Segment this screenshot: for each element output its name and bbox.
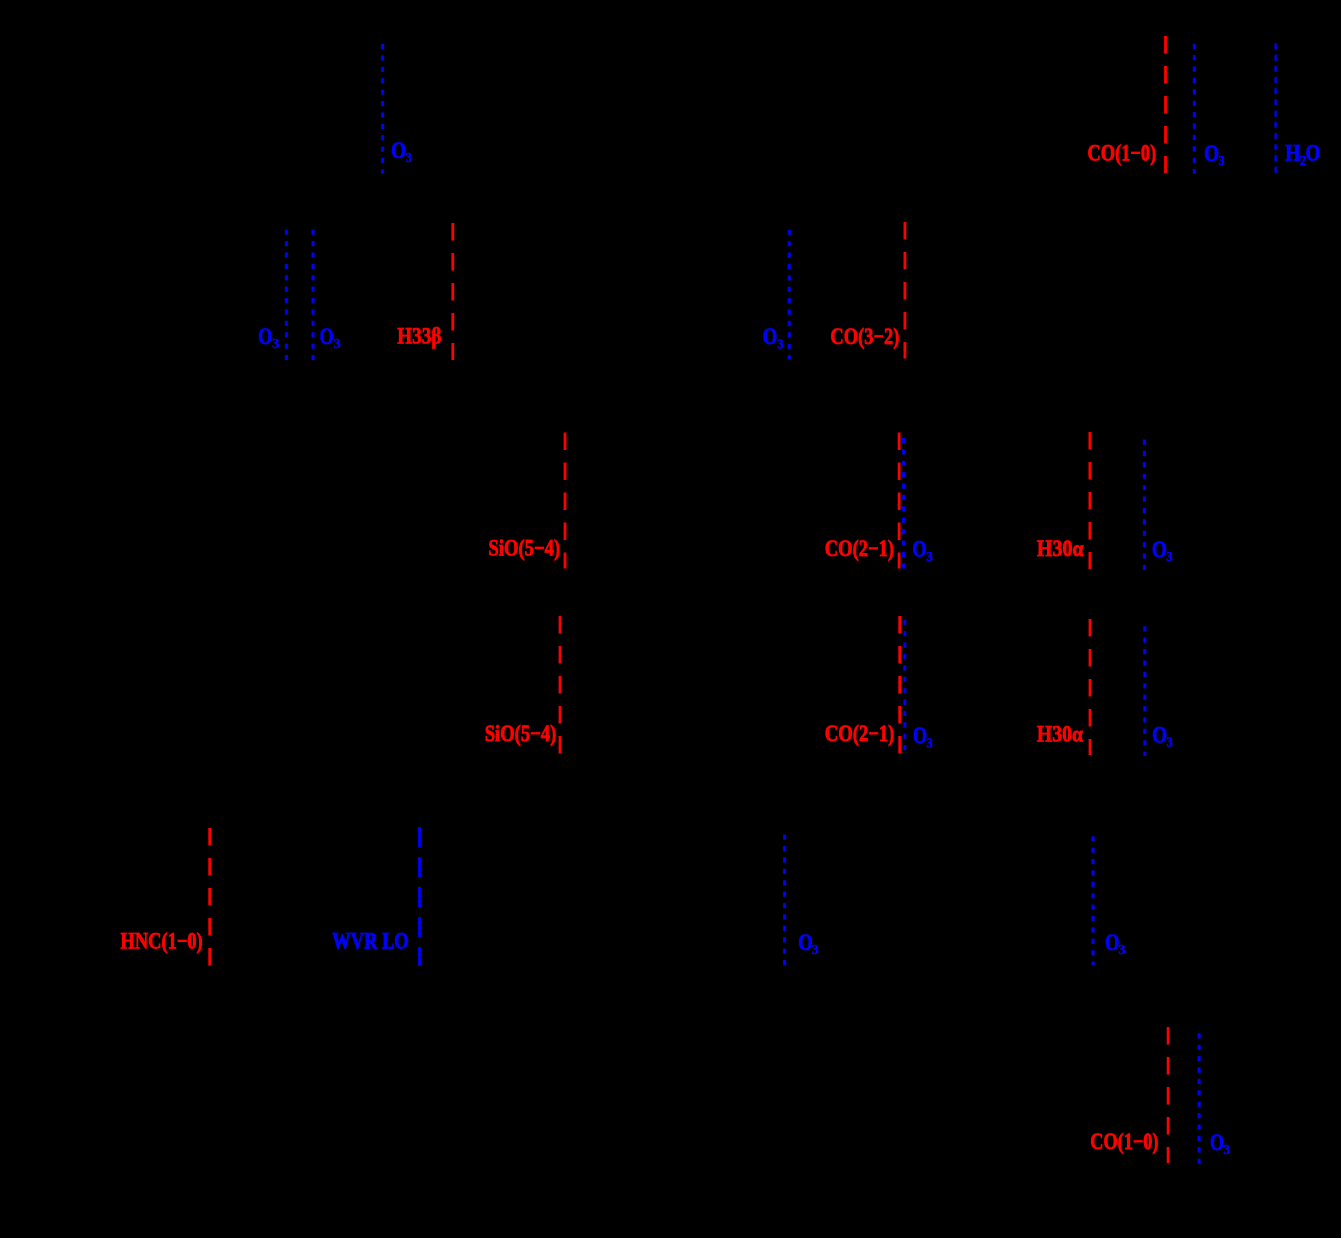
red dashed marker line H30alpha row3 [1089,432,1092,569]
svg-text:3: 3 [926,735,933,750]
svg-text:O: O [1105,930,1119,955]
svg-text:CO(2−1): CO(2−1) [825,721,895,746]
svg-text:3: 3 [1166,549,1172,564]
label WVR LO row5 [332,929,409,954]
blue dotted marker line O3 row4 right [1143,626,1146,756]
svg-text:O: O [1306,140,1321,165]
label SiO(5-4) row3 [488,535,560,560]
svg-text:3: 3 [777,337,784,352]
svg-text:O: O [1210,1130,1224,1155]
label O3 row2 a [258,324,279,351]
label H2O row1 [1285,140,1320,168]
svg-text:CO(2−1): CO(2−1) [825,536,894,561]
blue dotted marker line O3 row5 a [783,835,786,966]
label O3 row4 mid [913,723,933,750]
blue dotted marker line O3 row4 mid [903,620,906,757]
svg-text:3: 3 [406,150,413,165]
red dashed marker line CO(2-1) row4 [898,616,901,757]
svg-text:3: 3 [926,549,933,564]
label O3 row2 b [320,324,341,351]
blue dotted marker line O3 row1 left [381,44,384,174]
label O3 row6 [1210,1130,1230,1157]
svg-text:3: 3 [334,336,341,351]
label HNC(1-0) row5 [121,928,203,953]
label O3 row1 right [1204,141,1225,168]
svg-text:3: 3 [272,336,279,351]
svg-text:H33β: H33β [397,323,441,348]
svg-text:O: O [1204,141,1219,166]
blue dotted marker line O3 row2 b [312,230,315,361]
blue dotted marker line O3 row6 [1198,1033,1201,1163]
svg-text:3: 3 [1167,735,1173,750]
label O3 row3 right [1152,537,1173,564]
svg-text:H30α: H30α [1037,536,1084,561]
red dashed marker line HNC(1-0) row5 [208,828,211,966]
label CO(3-2) row2 [830,324,899,349]
label CO(1-0) row1 [1088,141,1157,166]
label CO(1-0) row6 [1090,1129,1158,1154]
svg-text:H30α: H30α [1037,722,1083,747]
svg-text:WVR LO: WVR LO [332,929,409,954]
red dashed marker line H33beta row2 [451,223,454,360]
svg-text:SiO(5−4): SiO(5−4) [488,535,560,560]
red dashed marker line CO(1-0) row1 [1164,36,1167,173]
svg-text:O: O [1152,537,1167,562]
label O3 row5 b [1105,930,1126,957]
svg-text:CO(1−0): CO(1−0) [1088,141,1157,166]
blue dotted marker line O3 row3 right [1143,440,1146,571]
red dashed marker line SiO(5-4) row3 [564,433,567,569]
label O3 row3 mid [912,537,933,565]
label O3 row5 a [798,930,819,957]
svg-text:3: 3 [1219,153,1225,168]
label CO(2-1) row3 [825,536,894,561]
red dashed marker line CO(2-1) row3 [898,433,901,569]
red dashed marker line SiO(5-4) row4 [559,616,562,756]
blue long-dash marker line WVR LO row5 [418,827,421,966]
svg-text:O: O [320,324,334,349]
svg-text:O: O [798,930,812,955]
svg-text:HNC(1−0): HNC(1−0) [121,928,203,953]
blue dotted marker line O3 row2 a [285,230,288,361]
svg-text:O: O [912,537,926,562]
svg-text:CO(1−0): CO(1−0) [1090,1129,1158,1154]
svg-text:CO(3−2): CO(3−2) [830,324,899,349]
svg-text:O: O [1152,722,1167,747]
svg-text:3: 3 [1118,942,1125,957]
svg-text:SiO(5−4): SiO(5−4) [485,721,557,746]
svg-text:O: O [391,138,406,163]
blue dashed marker line H2O row1 [1274,43,1276,173]
label O3 row2 right [763,324,784,351]
label H30alpha row3 [1037,536,1084,561]
blue dotted marker line O3 row2 right [788,230,791,360]
label H30alpha row4 [1037,722,1083,747]
label H33beta row2 [397,323,441,348]
label CO(2-1) row4 [825,721,895,746]
label O3 row1 left [391,138,412,165]
blue dotted marker line O3 row1 right [1193,44,1196,174]
blue dotted marker line O3 row5 b [1092,836,1095,965]
svg-text:3: 3 [1223,1142,1230,1157]
blue dotted marker line O3 row3 mid [902,438,905,570]
svg-text:O: O [763,324,777,349]
label O3 row4 right [1152,722,1173,749]
red dashed marker line CO(1-0) row6 [1167,1027,1170,1163]
svg-text:H: H [1285,140,1300,165]
svg-text:3: 3 [812,942,819,957]
red dashed marker line CO(3-2) row2 [904,222,907,359]
label SiO(5-4) row4 [485,721,557,746]
svg-text:O: O [913,723,927,748]
red dashed marker line H30alpha row4 [1089,619,1092,755]
svg-text:O: O [258,324,272,349]
